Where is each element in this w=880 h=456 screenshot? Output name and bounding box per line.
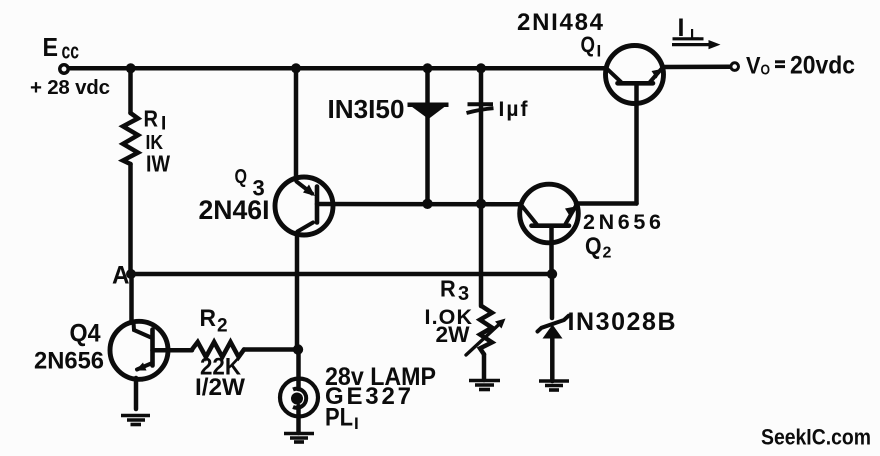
wire lamp to ground <box>296 406 301 433</box>
svg-text:Q: Q <box>235 166 248 188</box>
transistor Q3 <box>275 177 333 235</box>
svg-text:V: V <box>746 53 761 80</box>
wire Q2 base stem <box>549 227 554 274</box>
svg-text:O: O <box>761 63 771 79</box>
svg-text:2: 2 <box>217 316 228 337</box>
svg-text:2W: 2W <box>436 322 470 347</box>
node dot midline-capacitor <box>476 199 486 209</box>
resistor R3 zigzag <box>480 306 492 354</box>
ground under zener <box>539 381 569 390</box>
wire Q4 emitter to ground <box>134 378 139 409</box>
transistor Q1 <box>606 46 664 104</box>
wire mid to R3 <box>479 204 484 306</box>
zener diode IN3028B <box>538 316 569 339</box>
svg-text:3: 3 <box>458 283 469 305</box>
label Q2 <box>585 233 612 262</box>
resistor R1 zigzag <box>123 113 138 164</box>
terminal Vo output <box>731 63 739 71</box>
svg-text:L: L <box>690 26 699 43</box>
wire diode branch top <box>425 68 430 104</box>
svg-text:SeekIC.com: SeekIC.com <box>761 425 871 450</box>
label R3 <box>440 276 469 306</box>
wire Q3 emitter down <box>295 233 300 350</box>
node dot R2-lamp junction <box>293 344 303 354</box>
wire zener to ground <box>550 337 555 381</box>
svg-text:I: I <box>354 414 359 433</box>
svg-text:Iµf: Iµf <box>499 98 529 121</box>
capacitor 1uf <box>467 104 494 113</box>
wire zener branch <box>550 274 555 318</box>
node A dot <box>126 269 136 279</box>
label Q3 <box>235 166 265 201</box>
ground under Q4 <box>121 416 150 425</box>
label R2 <box>200 305 228 337</box>
variable resistor arrow R3 <box>466 319 506 356</box>
node dot midline-diode <box>422 199 432 209</box>
svg-text:2N656: 2N656 <box>583 210 661 234</box>
wire Q4 base to R2 <box>153 348 193 353</box>
wire R1 to node A <box>128 164 133 274</box>
svg-text:2N656: 2N656 <box>34 348 104 375</box>
wire Q3 collector top <box>294 68 299 180</box>
wire lamp stem top <box>296 350 301 390</box>
label Vo = 20vdc <box>746 52 855 80</box>
node dot rail-capacitor <box>476 63 486 73</box>
svg-text:IN3I50: IN3I50 <box>328 94 405 124</box>
label IL with arrow <box>672 14 721 49</box>
node dot A-line Q2 base <box>547 269 557 279</box>
node dot rail-Q3 <box>291 63 301 73</box>
wire node A line <box>131 272 552 277</box>
svg-text:Q: Q <box>585 233 602 260</box>
ground under lamp <box>284 434 314 443</box>
node dot rail-R1 <box>126 63 136 73</box>
svg-text:I/2W: I/2W <box>195 374 245 401</box>
svg-text:2: 2 <box>603 245 612 262</box>
wire Q1 emitter to output <box>663 65 730 70</box>
svg-text:IN3028B: IN3028B <box>568 308 676 336</box>
wire top rail <box>67 66 606 71</box>
svg-text:R: R <box>200 305 217 332</box>
svg-text:A: A <box>112 262 130 290</box>
svg-text:2N46I: 2N46I <box>199 195 270 225</box>
wire Q1 base vertical <box>634 85 639 204</box>
label Ecc <box>43 32 80 64</box>
svg-text:R: R <box>144 106 159 132</box>
svg-text:20vdc: 20vdc <box>790 52 855 80</box>
wire R1 branch top <box>128 68 133 113</box>
wire mid line Q3 base to Q2 collector <box>317 202 521 207</box>
wire R3 to ground <box>482 354 487 380</box>
node dot rail-diode <box>423 63 433 73</box>
terminal Ecc input <box>60 65 68 73</box>
transistor Q2 <box>520 184 579 243</box>
svg-text:PL: PL <box>325 404 353 432</box>
resistor R2 zigzag <box>192 342 244 357</box>
label R1 <box>144 106 167 135</box>
label Q1 <box>581 32 602 61</box>
svg-text:E: E <box>43 32 59 62</box>
label PL1 <box>325 404 359 434</box>
lamp PL1 <box>280 379 318 417</box>
svg-text:Q4: Q4 <box>70 320 101 348</box>
wire Q2 emitter to Q1 base horizontal <box>576 201 637 206</box>
svg-text:Q: Q <box>581 32 596 57</box>
wire A to Q4 <box>129 274 134 323</box>
svg-text:I: I <box>597 42 602 61</box>
svg-text:R: R <box>440 276 456 302</box>
wire diode branch bottom <box>425 116 430 204</box>
wire R2 to lamp junction <box>244 347 298 352</box>
svg-text:cc: cc <box>62 39 80 64</box>
ground under R3 <box>469 381 500 390</box>
diode IN3150 <box>408 103 449 120</box>
svg-text:IW: IW <box>146 151 170 177</box>
svg-text:+ 28 vdc: + 28 vdc <box>30 76 110 99</box>
wire capacitor R3 branch <box>479 68 484 204</box>
transistor Q4 <box>110 321 168 379</box>
